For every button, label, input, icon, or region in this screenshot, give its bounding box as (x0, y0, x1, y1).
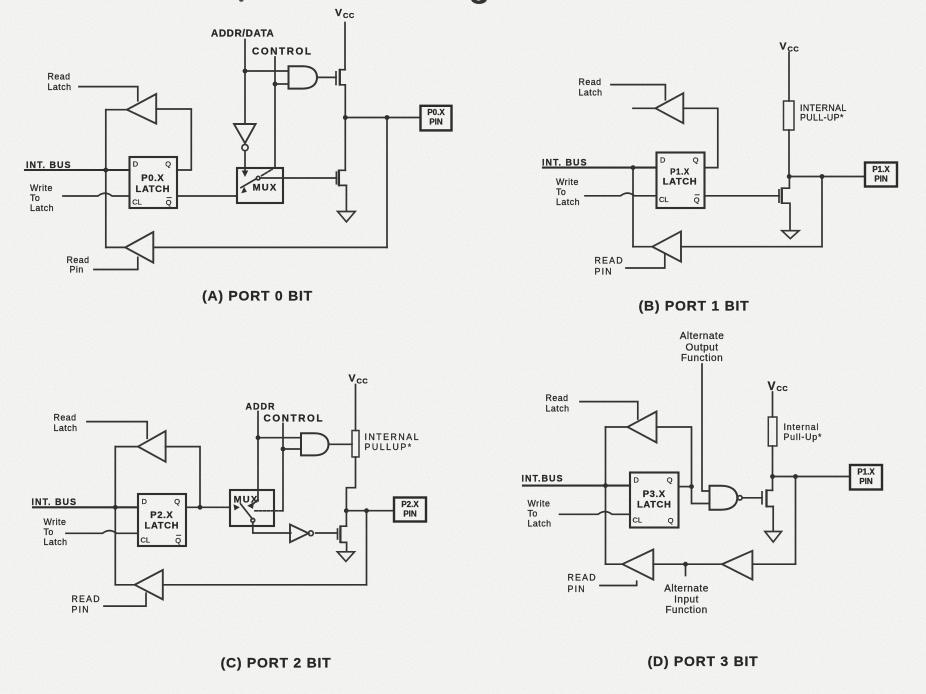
wire latch Q to MUX C (186, 506, 230, 508)
svg-text:Q: Q (693, 155, 699, 164)
buffer U6 (read latch C) (138, 431, 166, 462)
MUX dashed control link (262, 169, 272, 175)
nand gate G3 (710, 486, 743, 510)
wire U3 output to bus vertical (106, 109, 127, 111)
svg-text:PIN: PIN (403, 510, 417, 519)
wire MUX output to Q2 gate (260, 177, 336, 179)
svg-text:Pull-Up*: Pull-Up* (784, 432, 823, 442)
node drain junction C (344, 508, 349, 513)
wire U10 input row (653, 563, 722, 565)
wire read latch label leader (79, 87, 138, 101)
svg-text:PIN: PIN (429, 118, 443, 127)
wire G2 output to pull-up (329, 443, 352, 445)
wire U8 output to bus vertical (115, 584, 134, 586)
wire Q5 drain up to pin junction (772, 477, 774, 491)
svg-text:To: To (556, 187, 566, 197)
svg-text:P0.X: P0.X (427, 108, 445, 117)
MUX switch wiper C (241, 504, 253, 519)
label Write To Latch D (528, 499, 552, 529)
svg-text:LATCH: LATCH (136, 184, 170, 195)
pin box P2.X PIN (394, 498, 426, 522)
svg-text:V: V (780, 41, 787, 53)
wire U11 input from pin drop (752, 563, 795, 565)
MUX M1 box (237, 168, 283, 203)
svg-text:PIN: PIN (568, 584, 586, 594)
buffer U9 (read latch D) (628, 412, 657, 443)
wire G3 output to Q5 gate (742, 497, 762, 499)
wire read latch label leader C (87, 422, 147, 439)
svg-text:CL: CL (141, 536, 150, 545)
label Read Latch D (546, 393, 570, 414)
transistor Q4 (port 2 driver FET) (338, 526, 347, 552)
svg-text:Internal: Internal (784, 422, 820, 432)
ground symbol A (338, 212, 356, 222)
transistor Q1 (top driver FET) (336, 69, 345, 86)
label Alternate Input Function (664, 584, 709, 617)
svg-text:Write: Write (556, 177, 579, 187)
label Read Pin A (67, 255, 90, 275)
wire Vcc rail B (788, 53, 790, 102)
node pin junction D (793, 474, 798, 479)
wire write to latch B with hop (585, 193, 657, 196)
wire U6 output to bus vertical (115, 446, 138, 448)
wire read pin label leader C (104, 593, 146, 606)
wire INT. BUS B (543, 167, 657, 169)
wire write to latch D with hop (560, 512, 631, 515)
node drain junction A (343, 115, 348, 120)
svg-text:MUX: MUX (234, 495, 259, 506)
wire INT. BUS A (25, 169, 130, 171)
wire MUX output down to inverter (253, 522, 291, 533)
svg-text:ADDR/DATA: ADDR/DATA (211, 29, 274, 40)
buffer U3 (read latch) (127, 94, 156, 124)
wire U3 input from latch Q (156, 109, 191, 170)
wire INT.BUS D (523, 485, 630, 487)
svg-text:CONTROL: CONTROL (264, 414, 325, 425)
wire latch Qbar to MUX (177, 195, 237, 197)
svg-text:Input: Input (674, 594, 699, 605)
resistor R1 internal pull-up (784, 101, 795, 130)
svg-text:LATCH: LATCH (637, 500, 671, 511)
wire ADDR to G2 top input (258, 437, 301, 439)
svg-text:(D) PORT 3 BIT: (D) PORT 3 BIT (648, 653, 759, 669)
svg-text:(B) PORT 1 BIT: (B) PORT 1 BIT (639, 298, 750, 314)
transistor Q2 (bottom driver FET) (336, 170, 346, 187)
MUX M2 box (230, 490, 274, 526)
svg-text:Read: Read (48, 71, 71, 81)
wire read pin label leader B (626, 254, 665, 268)
svg-text:PIN: PIN (874, 175, 888, 184)
wire Q4 drain to junction (345, 511, 347, 527)
MUX addr entry arrow (247, 500, 258, 509)
svg-text:P0.X: P0.X (141, 173, 164, 184)
wire Q2 source to ground (345, 185, 347, 211)
wire latch Q to junction D (679, 486, 692, 488)
wire ADDR vertical C (257, 412, 259, 502)
MUX input arrow from latch (234, 504, 240, 510)
wire latch Qbar to Q3 gate (705, 195, 780, 197)
svg-text:Latch: Latch (30, 203, 54, 213)
wire U7 output to Q4 gate (316, 532, 338, 534)
wire write to latch C with hop (66, 531, 138, 534)
svg-text:Alternate: Alternate (664, 584, 709, 595)
Vcc supply label C (349, 373, 369, 386)
svg-text:V: V (768, 379, 776, 393)
wire U5 output to bus vertical (633, 246, 652, 248)
wire Vcc rail C (355, 385, 357, 431)
wire CONTROL vertical (274, 57, 276, 168)
svg-text:P1.X: P1.X (670, 168, 690, 177)
wire U4 input from latch Q (683, 108, 718, 167)
svg-text:Q: Q (174, 497, 180, 506)
Vcc supply label D (768, 379, 789, 393)
svg-text:Latch: Latch (579, 88, 603, 98)
node feedback junction C (198, 505, 203, 510)
label Alternate Output Function (680, 331, 725, 364)
label Read Latch C (54, 412, 78, 433)
wire CONTROL to G1 bottom input (275, 83, 289, 85)
svg-text:Q: Q (175, 536, 181, 545)
svg-text:D: D (142, 497, 147, 506)
label READ PIN D (568, 573, 597, 595)
wire pin drop B (821, 177, 823, 247)
MUX switch contact circle (256, 176, 260, 180)
resistor R2 internal pullup (352, 431, 359, 458)
svg-text:PIN: PIN (859, 477, 873, 486)
wire inverter output to MUX (244, 151, 246, 171)
svg-text:CC: CC (777, 384, 789, 393)
wire read latch label leader B (611, 85, 665, 100)
node drain junction B (787, 174, 792, 179)
latch P1.X LATCH (657, 153, 705, 209)
node alternate input junction (683, 562, 688, 567)
label Read Latch A (48, 71, 72, 92)
Vcc supply label A (335, 7, 355, 20)
buffer U10 (read pin D) (622, 550, 653, 580)
svg-text:P2.X: P2.X (401, 500, 419, 509)
svg-text:Read: Read (579, 77, 602, 87)
MUX switch arrow from latch input (241, 187, 247, 194)
svg-text:P2.X: P2.X (150, 510, 173, 521)
svg-text:Function: Function (665, 605, 707, 616)
wire read pin row A (153, 246, 387, 248)
buffer U4 (read latch B) (656, 93, 684, 123)
svg-text:INT. BUS: INT. BUS (32, 497, 78, 507)
svg-text:ADDR: ADDR (246, 402, 276, 412)
svg-text:CL: CL (659, 195, 668, 204)
svg-text:PIN: PIN (595, 267, 613, 277)
node bus junction D (603, 483, 608, 488)
wire bus vertical A (105, 110, 107, 248)
svg-text:PULL-UP*: PULL-UP* (800, 113, 844, 123)
svg-text:Read: Read (546, 393, 569, 403)
svg-text:Latch: Latch (556, 197, 580, 207)
label Write To Latch B (556, 177, 580, 207)
label Write To Latch C (44, 517, 68, 547)
scan artifact top edge (239, 0, 487, 4)
svg-text:Q: Q (694, 195, 700, 204)
svg-text:To: To (44, 527, 54, 537)
svg-text:CC: CC (343, 11, 355, 20)
svg-text:Latch: Latch (528, 519, 552, 529)
svg-text:P3.X: P3.X (643, 489, 666, 500)
wire U4 output to bus vertical (633, 107, 656, 109)
wire INT. BUS C (33, 506, 138, 508)
svg-text:V: V (335, 7, 342, 19)
svg-text:LATCH: LATCH (663, 177, 697, 188)
wire alternate output to NAND input (702, 364, 710, 491)
wire read pin label leader (94, 257, 138, 269)
latch P2.X LATCH (138, 494, 186, 546)
svg-text:PULLUP*: PULLUP* (365, 442, 413, 452)
and gate G1 (289, 66, 318, 88)
svg-text:Read: Read (54, 412, 77, 422)
wire R3 to drain junction D (772, 446, 774, 477)
svg-text:READ: READ (568, 573, 597, 583)
label READ PIN C (72, 594, 101, 615)
inverter U7 (port 2 gate inverter) (290, 525, 313, 543)
wire read pin row C (163, 584, 367, 586)
transistor Q3 (port 1 driver FET) (779, 177, 790, 231)
wire U9 output to bus vertical (606, 426, 628, 428)
wire pin drop C (366, 511, 368, 585)
svg-text:D: D (634, 475, 639, 484)
wire pin row D (773, 476, 851, 478)
pin box P1.X PIN (D) (850, 465, 882, 490)
wire bus vertical B (632, 168, 634, 247)
node junction CONTROL (273, 82, 278, 87)
wire R1 to drain junction (788, 130, 790, 177)
node junction ADDR C (256, 435, 261, 440)
svg-text:MUX: MUX (253, 183, 278, 194)
svg-text:To: To (30, 193, 40, 203)
svg-text:Latch: Latch (48, 82, 72, 92)
svg-text:READ: READ (595, 256, 624, 266)
wire pin drop to read-pin row (386, 118, 388, 248)
ground symbol C (337, 552, 354, 562)
wire CONTROL to G2 bottom input (283, 448, 301, 450)
inverter U1 (address inverter) (234, 124, 256, 151)
label Internal Pull-Up* (784, 422, 823, 442)
svg-text:Alternate: Alternate (680, 331, 725, 342)
svg-text:INT. BUS: INT. BUS (542, 157, 588, 167)
resistor R3 internal pull-up (768, 417, 777, 446)
node drain junction D (770, 474, 775, 479)
svg-text:READ: READ (72, 594, 101, 604)
wire Vcc rail D (772, 392, 774, 417)
MUX switch wiper (241, 179, 256, 188)
node pin junction C (364, 508, 369, 513)
wire pin drop D (795, 477, 797, 565)
node junction ADDR/DATA (243, 69, 248, 74)
wire Q junction down to NAND lower input (692, 487, 710, 504)
label INTERNAL PULL-UP* (800, 103, 847, 123)
node bus junction B (631, 165, 636, 170)
svg-text:Q: Q (166, 198, 172, 207)
ground symbol B (782, 231, 799, 239)
node bus junction A (103, 168, 108, 173)
svg-text:Write: Write (44, 517, 67, 527)
wire U5 input from pin drop (681, 246, 822, 248)
buffer U2 (read pin) (125, 232, 153, 263)
svg-text:V: V (349, 373, 356, 385)
pin box P0.X PIN (421, 106, 452, 131)
svg-text:To: To (528, 509, 538, 519)
svg-text:D: D (133, 159, 138, 168)
wire ADDR/DATA to G1 top input (245, 70, 289, 72)
wire pin row B (789, 176, 865, 178)
wire bus vertical D (605, 427, 607, 564)
node pin junction B (820, 174, 825, 179)
wire U10 output to bus vertical (606, 563, 623, 565)
wire pin row C (346, 510, 394, 512)
svg-text:P1.X: P1.X (872, 165, 890, 174)
svg-text:(A) PORT 0 BIT: (A) PORT 0 BIT (202, 288, 313, 304)
wire pin row A (345, 117, 420, 119)
svg-text:CL: CL (633, 516, 642, 525)
stub to alternate input label (685, 564, 687, 575)
svg-text:INTERNAL: INTERNAL (800, 103, 847, 113)
wire G1 output to Q1 gate (317, 76, 336, 78)
wire bus vertical C (114, 447, 116, 585)
svg-text:Q: Q (667, 475, 673, 484)
wire read pin label leader D (600, 581, 637, 585)
svg-text:PIN: PIN (72, 605, 90, 615)
latch P3.X LATCH (630, 473, 679, 528)
Vcc supply label B (780, 41, 800, 54)
buffer U8 (read pin C) (135, 570, 163, 599)
svg-text:D: D (660, 155, 665, 164)
svg-text:P1.X: P1.X (857, 468, 875, 477)
svg-text:Function: Function (681, 353, 723, 364)
transistor Q5 (port 3 driver FET) (762, 489, 773, 507)
svg-text:Read: Read (67, 255, 90, 265)
svg-text:Write: Write (30, 183, 53, 193)
wire CONTROL vertical C (282, 424, 284, 511)
wire rail between Q1 and Q2 (344, 85, 346, 171)
svg-text:Latch: Latch (54, 423, 78, 433)
wire Q5 source to ground (772, 507, 774, 532)
svg-text:Latch: Latch (546, 404, 570, 414)
node Q junction D (689, 484, 694, 489)
pin box P1.X PIN (865, 163, 897, 187)
buffer U5 (read pin B) (652, 231, 681, 261)
svg-text:INT.BUS: INT.BUS (522, 474, 564, 484)
label Read Latch B (579, 77, 603, 98)
node junction CONTROL C (281, 447, 286, 452)
wire R2 to drain junction C (346, 457, 355, 511)
buffer U11 (alternate input) (722, 551, 752, 580)
svg-text:INTERNAL: INTERNAL (365, 432, 421, 442)
svg-text:Q: Q (165, 159, 171, 168)
node bus junction C (113, 505, 118, 510)
svg-text:CONTROL: CONTROL (252, 47, 313, 58)
MUX switch contact circle C (251, 518, 255, 522)
svg-text:Q: Q (668, 516, 674, 525)
wire U6 input feedback to latch Q wire (166, 447, 200, 508)
wire U2 output to bus vertical (106, 246, 126, 248)
svg-text:LATCH: LATCH (145, 521, 179, 532)
MUX select arrow (from inverter) (242, 171, 249, 178)
svg-text:Pin: Pin (70, 265, 84, 275)
svg-text:CL: CL (132, 198, 141, 207)
and gate G2 (301, 433, 329, 455)
ground symbol D (765, 532, 782, 543)
svg-text:(C) PORT 2 BIT: (C) PORT 2 BIT (221, 655, 332, 671)
label Write To Latch A (30, 183, 54, 213)
wire read latch label leader D (580, 402, 638, 419)
wire U9 input feedback to latch Q wire (657, 427, 692, 487)
wire write to latch with hop (63, 193, 130, 196)
svg-text:Latch: Latch (44, 537, 68, 547)
label INTERNAL PULLUP* (365, 432, 421, 452)
wire ADDR/DATA vertical (244, 40, 246, 124)
MUX dashed control link C (255, 510, 283, 512)
svg-text:Output: Output (685, 342, 718, 353)
svg-text:CC: CC (357, 377, 369, 386)
svg-text:INT. BUS: INT. BUS (26, 160, 72, 170)
wire Vcc rail A (344, 23, 346, 70)
node pin junction A (385, 115, 390, 120)
label READ PIN B (595, 256, 624, 277)
svg-text:Write: Write (528, 499, 551, 509)
latch P0.X LATCH (130, 157, 178, 208)
